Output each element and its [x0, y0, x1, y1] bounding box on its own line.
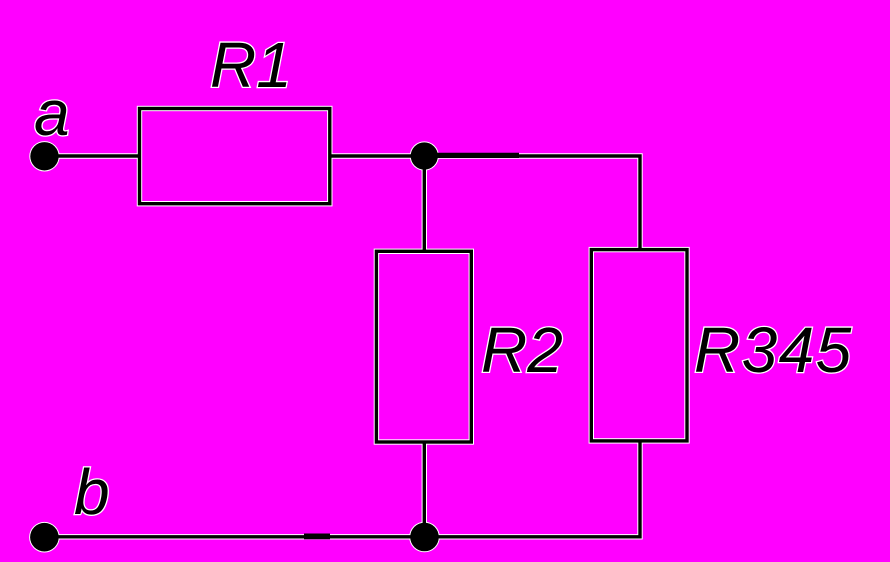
svg-text:a: a	[34, 77, 70, 149]
svg-text:R1: R1	[210, 29, 292, 101]
svg-text:R345: R345	[694, 314, 853, 386]
svg-text:b: b	[74, 456, 110, 528]
svg-text:R2: R2	[481, 314, 563, 386]
